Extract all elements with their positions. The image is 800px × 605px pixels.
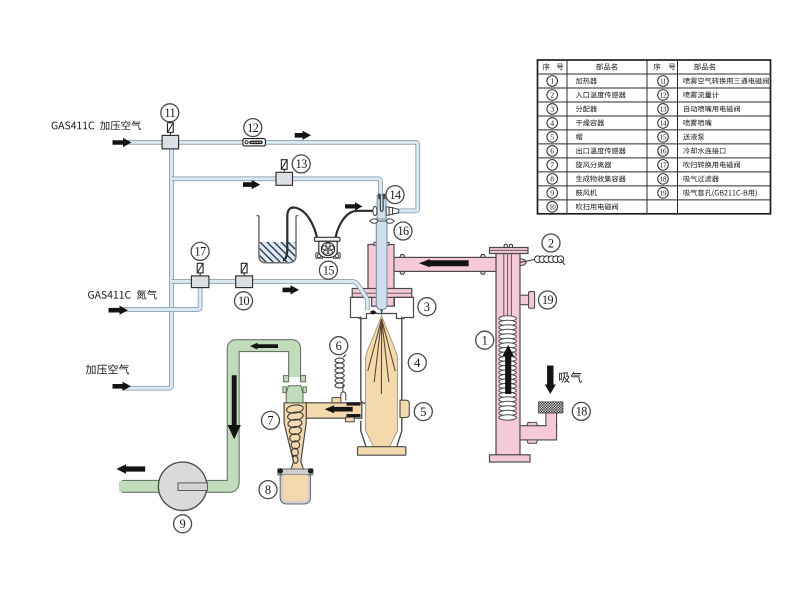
solenoid valve V11 bbox=[169, 132, 171, 135]
svg-text:19: 19 bbox=[542, 293, 554, 307]
label pressurized air (bottom inlet) bbox=[86, 364, 96, 374]
node label 8 bbox=[259, 481, 277, 499]
arrow exhaust down (left leg) bbox=[228, 375, 241, 439]
label GAS411C nitrogen bbox=[88, 291, 94, 299]
svg-text:16: 16 bbox=[660, 147, 667, 155]
collection vessel C8 bbox=[278, 469, 313, 475]
svg-text:17: 17 bbox=[660, 161, 667, 169]
cap tab C5 bbox=[400, 400, 409, 417]
pipe hot air duct (heater to distributor) bbox=[393, 257, 497, 271]
clamp flange (white castellated) bbox=[351, 297, 414, 318]
node label 7 bbox=[262, 411, 280, 429]
node label 10 bbox=[235, 292, 253, 310]
spray nozzle N14 with cooling jacket bbox=[377, 195, 386, 219]
svg-text:12: 12 bbox=[247, 121, 259, 135]
svg-text:1: 1 bbox=[550, 77, 554, 86]
arrow liquid feed to nozzle bbox=[345, 202, 363, 210]
wire feed tube (pump 15 to nozzle 14) bbox=[336, 211, 373, 238]
svg-text:14: 14 bbox=[660, 119, 667, 127]
svg-text:4: 4 bbox=[414, 356, 421, 370]
node label 16 bbox=[394, 222, 412, 240]
label GAS411C pressurized air bbox=[52, 122, 58, 130]
blower B9 bbox=[158, 462, 206, 510]
heater column body U1 bbox=[520, 259, 526, 266]
svg-text:18: 18 bbox=[576, 405, 588, 419]
svg-text:12: 12 bbox=[660, 91, 667, 99]
arrow hot air into distributor bbox=[419, 259, 469, 267]
node label 5 bbox=[414, 403, 432, 421]
arrow before valve 13 bbox=[243, 180, 260, 189]
node label 11 bbox=[161, 104, 179, 122]
node label 4 bbox=[408, 354, 426, 372]
spray cone (product) bbox=[366, 316, 398, 447]
node label 15 bbox=[319, 261, 337, 279]
arrow blower exhaust out bbox=[116, 464, 145, 474]
node label 14 bbox=[386, 186, 404, 204]
svg-text:10: 10 bbox=[238, 294, 250, 308]
distributor block D3 bbox=[368, 245, 394, 307]
arrow into valve 11 bbox=[113, 138, 132, 147]
node label 3 bbox=[418, 298, 436, 316]
node label 2 bbox=[542, 234, 560, 252]
svg-text:3: 3 bbox=[550, 105, 554, 114]
outlet temperature sensor coil T6 bbox=[335, 358, 344, 363]
node label 18 bbox=[572, 402, 590, 420]
svg-text:18: 18 bbox=[660, 175, 667, 183]
outlet coupling fittings bbox=[332, 398, 341, 403]
svg-text:8: 8 bbox=[550, 175, 554, 184]
chamber base flange bbox=[358, 447, 406, 456]
heating coil element bbox=[499, 316, 517, 321]
solenoid valve V17 bbox=[199, 273, 201, 276]
svg-text:1: 1 bbox=[482, 334, 488, 348]
svg-text:5: 5 bbox=[420, 405, 426, 419]
wire auto-nozzle air line (to valve 13 and nozzle top) bbox=[172, 179, 381, 195]
svg-text:14: 14 bbox=[389, 188, 401, 202]
arrow purge into chamber bbox=[371, 310, 377, 315]
wire feed tube (beaker to pump 15) bbox=[283, 208, 317, 261]
node label 12 bbox=[244, 119, 262, 137]
cyclone top coupling bbox=[284, 376, 289, 382]
arrow bottom air inlet bbox=[113, 382, 132, 391]
parts list table bbox=[538, 60, 771, 214]
node label 9 bbox=[174, 515, 192, 533]
arrow exhaust left (top of loop) bbox=[250, 343, 278, 350]
solenoid valve V10 bbox=[243, 273, 245, 276]
svg-text:2: 2 bbox=[550, 91, 554, 100]
svg-text:7: 7 bbox=[550, 161, 554, 170]
flow meter FM12 bbox=[243, 139, 266, 146]
wire nitrogen inlet line (to valve 17) bbox=[124, 287, 200, 309]
cyclone vortex spiral bbox=[286, 404, 304, 414]
spray streak lines bbox=[368, 319, 395, 394]
pipe blower outlet bbox=[119, 480, 160, 493]
wire purge line (valve 17/10 to chamber) bbox=[172, 282, 368, 311]
svg-text:9: 9 bbox=[179, 517, 185, 531]
wire compressed-air riser (valve 11 down to bottom inlet) bbox=[124, 149, 172, 388]
svg-text:6: 6 bbox=[336, 339, 342, 353]
svg-text:15: 15 bbox=[323, 263, 335, 277]
svg-text:8: 8 bbox=[265, 483, 271, 497]
peristaltic pump P15 bbox=[315, 237, 341, 241]
node label 13 bbox=[292, 155, 310, 173]
svg-text:2: 2 bbox=[548, 236, 554, 250]
cyclone separator C7 bbox=[284, 403, 306, 470]
svg-text:5: 5 bbox=[550, 133, 554, 142]
arrow outlet flow (to cyclone) bbox=[325, 405, 353, 413]
arrow hot air up (inside heater) bbox=[503, 345, 514, 394]
blower outlet tip taper bbox=[116, 479, 126, 495]
node label 19 bbox=[539, 291, 557, 309]
svg-text:17: 17 bbox=[195, 245, 207, 259]
intake filter F18 bbox=[539, 402, 563, 413]
solenoid valve V13 bbox=[283, 169, 285, 172]
svg-text:13: 13 bbox=[296, 157, 308, 171]
svg-text:11: 11 bbox=[660, 77, 667, 85]
arrow nitrogen inlet bbox=[109, 306, 129, 315]
svg-text:7: 7 bbox=[267, 414, 273, 428]
beaker with liquid bbox=[260, 242, 296, 262]
node label 17 bbox=[191, 242, 209, 260]
arrow after flow meter 12 bbox=[295, 131, 311, 140]
arrow after valve 10 bbox=[283, 285, 300, 294]
svg-text:16: 16 bbox=[397, 224, 409, 238]
svg-text:3: 3 bbox=[424, 300, 430, 314]
inlet temperature sensor coil T2 bbox=[520, 259, 536, 262]
node label 1 bbox=[476, 331, 494, 349]
node label 6 bbox=[330, 337, 348, 355]
svg-text:15: 15 bbox=[660, 133, 667, 141]
svg-text:9: 9 bbox=[550, 189, 554, 198]
svg-text:6: 6 bbox=[550, 147, 554, 156]
svg-text:4: 4 bbox=[550, 119, 554, 128]
pipe exhaust loop (cyclone to blower) bbox=[206, 346, 295, 487]
svg-text:13: 13 bbox=[660, 105, 667, 113]
pipe intake elbow (filter to heater) bbox=[546, 411, 557, 428]
arrow intake air down bbox=[545, 366, 556, 395]
wire spray-air line (valve 11 to flow meter to nozzle side) bbox=[123, 142, 418, 211]
drying chamber glass walls C4 bbox=[361, 317, 402, 447]
label intake air bbox=[559, 373, 570, 383]
svg-text:11: 11 bbox=[164, 106, 175, 120]
pipe chamber outlet to cyclone bbox=[306, 403, 362, 418]
svg-text:19: 19 bbox=[660, 189, 667, 197]
svg-text:10: 10 bbox=[549, 203, 556, 211]
